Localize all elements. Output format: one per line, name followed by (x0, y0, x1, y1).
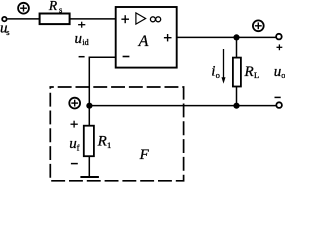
- mark of u_f (71, 163, 78, 165)
ground bar (80, 176, 99, 178)
svg-text:o: o (216, 70, 220, 80)
op-amp - input mark (123, 56, 130, 58)
wire inverting input (89, 57, 115, 125)
wire RL to bottom (236, 87, 238, 106)
svg-text:F: F (139, 147, 150, 163)
op-amp triangle (136, 13, 146, 24)
svg-text:f: f (77, 142, 80, 152)
- mark above terminal (275, 96, 281, 98)
svg-text:R: R (97, 133, 107, 149)
op-amp output + mark (164, 34, 172, 41)
node feedback left (86, 103, 92, 109)
svg-text:R: R (244, 64, 254, 80)
infinity gain mark (150, 17, 160, 22)
resistor R1 (84, 126, 94, 157)
wire (7, 18, 39, 20)
source polarity mark left (18, 3, 29, 14)
svg-text:s: s (6, 27, 9, 37)
node below RL (233, 103, 239, 109)
node output (233, 34, 239, 40)
terminal output top right (276, 34, 282, 40)
feedback bottom wire (89, 105, 276, 107)
svg-text:id: id (82, 38, 88, 47)
svg-text:R: R (48, 0, 58, 13)
+ mark of u_f (71, 121, 78, 128)
+ mark under terminal (277, 44, 283, 50)
svg-text:u: u (69, 136, 77, 152)
terminal output bottom right (276, 102, 282, 108)
+ mark of u_id (78, 22, 85, 28)
svg-text:u: u (274, 64, 282, 80)
wire output (177, 36, 276, 38)
op-amp U1 (116, 7, 177, 68)
wire (70, 18, 116, 20)
source polarity mark top right (253, 20, 264, 31)
wire to RL (236, 37, 238, 57)
current arrow i_o (222, 49, 226, 84)
svg-text:u: u (75, 31, 83, 47)
resistor Rs (40, 14, 70, 25)
svg-text:1: 1 (107, 140, 111, 150)
svg-text:A: A (138, 33, 149, 50)
wire R1 to ground (88, 156, 90, 176)
op-amp + input mark (121, 15, 129, 23)
svg-text:s: s (59, 4, 62, 14)
feedback network F dashed box (50, 87, 183, 181)
source polarity mark bottom left (69, 98, 80, 109)
terminal input left (2, 17, 6, 21)
resistor RL (233, 58, 241, 87)
svg-text:o: o (281, 70, 285, 80)
svg-text:L: L (254, 70, 259, 80)
- mark of u_id (79, 56, 85, 58)
